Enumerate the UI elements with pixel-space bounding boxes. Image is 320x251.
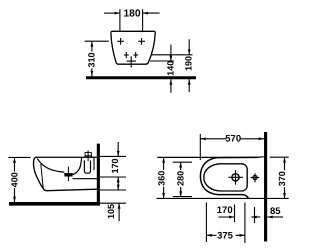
wall (side view) — [97, 144, 100, 206]
dimension 375 line with arrows — [206, 234, 245, 237]
tap hole cross (plan) — [251, 173, 260, 182]
outlet small cross left — [124, 52, 129, 58]
svg-text:280: 280 — [175, 171, 185, 186]
dimension 375 right extension line — [244, 203, 246, 244]
floor line (rear view) — [86, 76, 196, 79]
dimension 140 upper arrow — [170, 45, 173, 61]
dimension 105 upper reference line — [100, 189, 126, 191]
bidet plan inner basin outline — [204, 164, 247, 191]
dimension 370 upper reference line — [270, 156, 289, 158]
dimension 190 upper arrow — [188, 39, 191, 55]
dimension 360 line with arrows — [162, 157, 165, 198]
svg-text:170: 170 — [110, 158, 120, 173]
drain hole circle (plan) — [232, 174, 239, 181]
dimension 190 reference line — [152, 54, 193, 56]
tap hole circle (plan) — [253, 175, 257, 179]
dimension 400 line with arrows — [13, 157, 16, 202]
dimension 105 lower arrow — [118, 203, 121, 221]
drain large cross — [127, 56, 136, 67]
top edge line (360 reference + bidet top edge) — [157, 156, 264, 159]
dimension label 400 — [9, 171, 19, 188]
basin rear curve up to deck — [73, 157, 82, 174]
svg-text:310: 310 — [87, 52, 97, 67]
bidet rear outline (trapezoid) — [111, 31, 155, 64]
dimension 400 reference line — [8, 156, 30, 158]
dimension 170 upper reference line (side) — [100, 155, 126, 157]
dimension 280 upper reference line — [173, 161, 192, 163]
rear width line (long, 360/370 bottom reference) — [157, 197, 289, 199]
drain cross (side view) — [64, 166, 73, 181]
floor (side view) — [9, 202, 100, 206]
drain recess (side view) — [64, 173, 72, 176]
tap body above deck — [85, 152, 91, 157]
dimension 310 reference line — [85, 40, 109, 42]
bidet side profile outline — [34, 157, 97, 191]
dimension 140 lower arrow (below floor) — [170, 79, 173, 92]
svg-text:360: 360 — [157, 171, 167, 186]
svg-text:400: 400 — [9, 172, 19, 187]
dimension label 360 — [157, 170, 167, 187]
dimension 370 line with arrows — [283, 157, 286, 198]
svg-text:180: 180 — [124, 9, 141, 20]
rear fixture line — [93, 158, 95, 171]
dimension 570 line with arrows — [200, 137, 264, 140]
svg-text:105: 105 — [106, 204, 116, 219]
dimension 180 left arrow — [104, 12, 120, 15]
svg-text:140: 140 — [166, 61, 176, 76]
dimension 170 lower reference line (side) — [100, 176, 126, 178]
bidet plan outer outline — [200, 157, 258, 198]
dimension 170 left extension line (plan, shared with 375) — [205, 203, 207, 243]
dimension 170 upper arrow (side) — [117, 142, 120, 156]
tap fitting below deck — [84, 160, 90, 173]
dimension 170/105 shared arrows between refs — [117, 177, 120, 190]
dimension 180 right extension line — [142, 9, 144, 31]
dimension label 310 — [87, 52, 97, 69]
svg-text:170: 170 — [217, 205, 233, 216]
svg-text:370: 370 — [277, 171, 287, 186]
drain hole cross (plan) — [228, 170, 243, 185]
basin inner curve — [37, 159, 64, 173]
svg-text:190: 190 — [184, 56, 194, 71]
bidet front crease line — [41, 164, 44, 188]
dimension 180 right arrow — [143, 12, 160, 15]
wall (plan view) — [264, 132, 267, 242]
rear underside line — [73, 178, 98, 180]
dimension label 370 — [277, 170, 287, 187]
dimension label 280 — [175, 170, 185, 187]
dimension 190 lower arrow (below floor) — [188, 79, 191, 92]
dimension 85 left arrow — [251, 216, 260, 219]
svg-text:570: 570 — [225, 134, 241, 145]
dimension 140 reference line — [150, 60, 174, 62]
dimension 105 lower reference line — [100, 202, 126, 204]
dimension 170 line with arrows (plan) — [218, 216, 234, 219]
fixing hole cross left — [117, 38, 124, 45]
dimension 280 line with arrows — [179, 162, 182, 196]
dimension 570 left extension line — [199, 134, 201, 160]
dimension 180 left extension line — [119, 9, 121, 31]
dimension 280 lower reference line — [173, 196, 192, 198]
svg-text:85: 85 — [270, 206, 281, 217]
fixing hole cross right — [138, 38, 145, 45]
outlet small cross right — [133, 52, 138, 58]
dimension 85 extension line (tap center) — [254, 207, 256, 223]
dimension 310 line with arrows — [91, 41, 94, 76]
dimension 170 right extension line (plan) — [234, 205, 236, 223]
bidet rim top line — [36, 156, 97, 158]
tap cross (side view) — [85, 150, 92, 161]
svg-text:375: 375 — [217, 231, 234, 242]
dimension 85 right arrow — [267, 216, 283, 219]
